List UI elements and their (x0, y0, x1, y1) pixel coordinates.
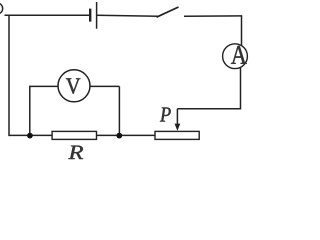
label P (160, 108, 171, 122)
voltmeter U2 circle (58, 70, 90, 102)
voltmeter branch horizontal wire left (29, 85, 58, 87)
rheostat P box (155, 131, 199, 139)
voltmeter branch horizontal wire right (90, 85, 120, 87)
voltmeter branch right vertical wire (118, 86, 120, 135)
wire battery to switch (97, 14, 159, 17)
bottom wire (9, 134, 156, 136)
battery cell (89, 2, 97, 29)
resistor R box (52, 131, 96, 139)
label R (68, 146, 83, 159)
switch S (open blade) (157, 7, 179, 17)
partial meter circle (cropped at left edge) (0, 3, 3, 14)
wire left vertical (8, 15, 10, 136)
voltmeter branch left vertical wire (29, 86, 31, 135)
junction node dot left (27, 133, 33, 139)
wire right vertical down to ammeter (241, 16, 243, 46)
wire switch to top-right corner (184, 15, 242, 17)
junction node dot right (116, 133, 122, 139)
ammeter U1 circle (223, 44, 248, 69)
wire top-left horizontal to battery (5, 14, 90, 16)
ammeter letter A (231, 46, 247, 64)
wire ammeter down and left to rheostat wiper (177, 67, 240, 109)
voltmeter letter V (66, 78, 81, 94)
rheostat wiper arrow (175, 109, 181, 131)
